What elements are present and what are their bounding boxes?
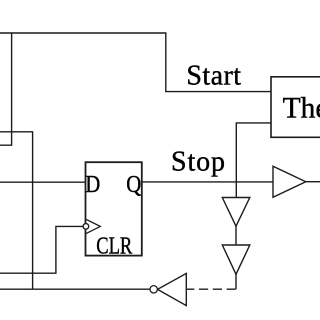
svg-text:Stop: Stop: [171, 147, 226, 178]
svg-text:Q: Q: [126, 170, 142, 197]
svg-text:D: D: [85, 170, 100, 197]
svg-text:Start: Start: [186, 61, 241, 92]
svg-text:The: The: [283, 93, 320, 125]
svg-text:CLR: CLR: [96, 232, 133, 259]
